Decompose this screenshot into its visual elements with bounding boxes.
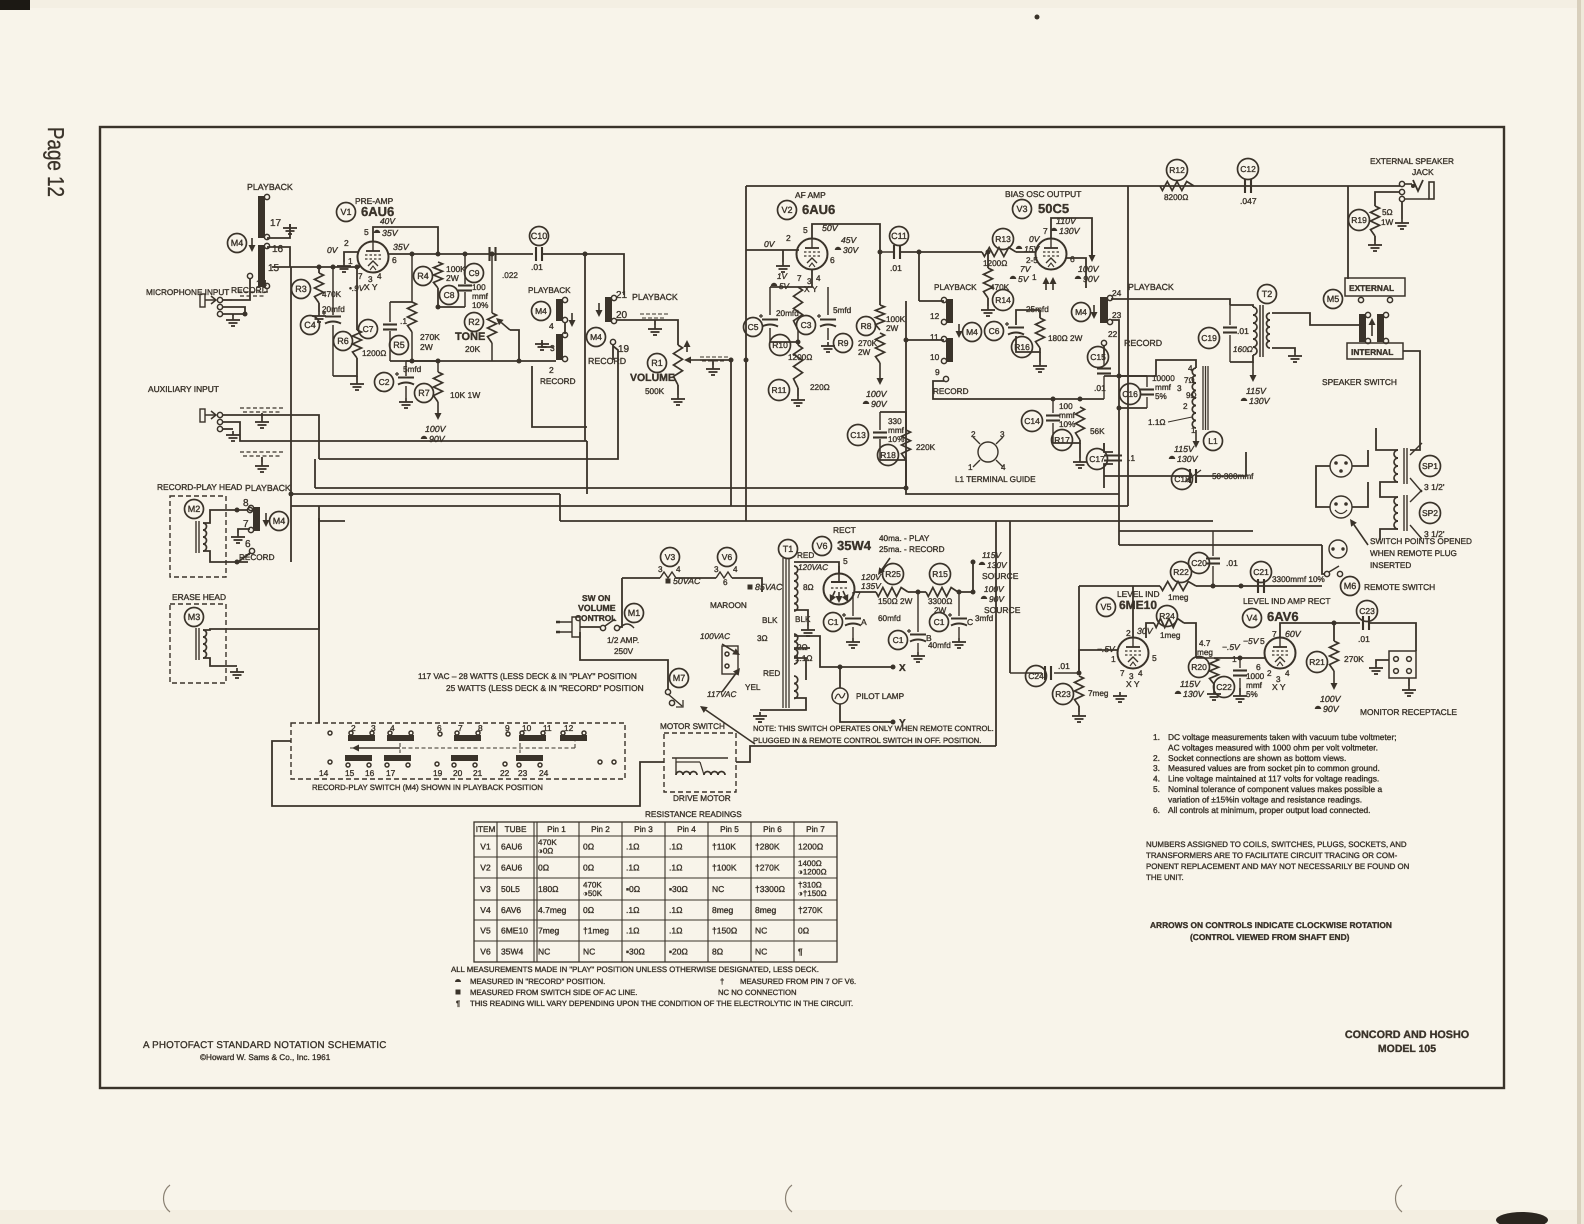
svg-text:C8: C8 (444, 290, 455, 300)
svg-text:7: 7 (797, 274, 802, 283)
svg-text:7meg: 7meg (1088, 689, 1109, 698)
volume bottom ground lead (677, 385, 679, 395)
junction cathode R5 (410, 359, 415, 364)
svg-text:8Ω: 8Ω (803, 583, 814, 592)
jack ring wire (1375, 192, 1400, 206)
R16 top lead (1039, 310, 1041, 318)
label MOTOR SWITCH (660, 722, 725, 731)
record marker 130V (R20) (1175, 691, 1181, 694)
pin 22 down (1103, 346, 1105, 360)
svg-text:R21: R21 (1309, 657, 1325, 667)
svg-text:MOTOR SWITCH: MOTOR SWITCH (660, 722, 725, 731)
value 25mfd (C6) (1026, 305, 1049, 314)
svg-text:PLAYBACK: PLAYBACK (934, 283, 977, 292)
svg-text:©Howard W. Sams & Co., Inc. 19: ©Howard W. Sams & Co., Inc. 1961 (200, 1053, 331, 1062)
footer model line1 (1345, 1029, 1469, 1041)
V1 screen line (388, 253, 533, 255)
punch mark right (1396, 1185, 1402, 1212)
pin 3 ground lead (542, 342, 553, 347)
resistor designator R13 (993, 229, 1014, 250)
voltage 100V (R21) (1320, 694, 1342, 704)
resistor designator R8 (857, 317, 876, 336)
svg-text:14: 14 (319, 768, 329, 778)
pot designator R2 (465, 313, 484, 332)
L1 7 ohm (1184, 376, 1195, 385)
svg-text:1/2 AMP.: 1/2 AMP. (607, 636, 639, 645)
svg-text:RED: RED (797, 551, 814, 560)
svg-text:4.7meg: 4.7meg (538, 905, 567, 915)
svg-text:8meg: 8meg (755, 905, 777, 915)
svg-text:22: 22 (1108, 329, 1118, 339)
label LEVEL IND AMP RECT (1243, 596, 1331, 606)
V3 box right vertical (1127, 186, 1129, 506)
svg-text:THIS READING WILL VARY DEPENDI: THIS READING WILL VARY DEPENDING UPON TH… (470, 999, 853, 1008)
switch M4 section 24-23 (1100, 295, 1113, 324)
ground at V2 pin2 (776, 262, 790, 272)
label PLAYBACK (tone switch) (528, 286, 571, 295)
svg-text:180Ω 2W: 180Ω 2W (1048, 334, 1083, 343)
svg-text:6AU6: 6AU6 (501, 842, 523, 852)
svg-text:V5: V5 (1100, 602, 1111, 612)
svg-text:◑0Ω: ◑0Ω (538, 847, 553, 856)
svg-text:6AU6: 6AU6 (802, 202, 835, 217)
svg-text:17: 17 (270, 218, 282, 229)
tube designator V3 (1013, 200, 1032, 219)
tube type 6AU6 (V2) (802, 202, 835, 217)
capacitor designator C11 (890, 227, 909, 246)
value 3300 ohm (R15) (928, 597, 952, 606)
switch wafer bar top 5 (560, 731, 587, 741)
plug wiring left (1316, 466, 1330, 507)
switch M4 section 20-21 (605, 295, 617, 323)
svg-text:20mfd: 20mfd (322, 305, 345, 314)
junction wiper bus2 (744, 358, 749, 363)
label PRE-AMP (355, 196, 394, 206)
svg-text:RESISTANCE READINGS: RESISTANCE READINGS (645, 810, 742, 819)
svg-text:SPEAKER SWITCH: SPEAKER SWITCH (1322, 377, 1397, 387)
svg-text:4: 4 (816, 274, 821, 283)
svg-text:0Ω: 0Ω (583, 905, 594, 915)
footer model line2 (1378, 1043, 1436, 1055)
M4 arrow (output) (1091, 305, 1098, 319)
value 1meg (R24) (1160, 631, 1181, 640)
V4 plate junction R21 (1333, 623, 1335, 641)
svg-text:NC: NC (755, 947, 767, 957)
svg-text:NC NO CONNECTION: NC NO CONNECTION (718, 988, 797, 997)
svg-text:R22: R22 (1173, 567, 1189, 577)
head designator M2 (185, 500, 204, 519)
ground below R17 (1073, 458, 1087, 468)
power note line 1 (418, 672, 637, 681)
svg-text:100: 100 (472, 283, 486, 292)
svg-text:.1Ω: .1Ω (626, 842, 639, 852)
switch to heater string (619, 578, 622, 627)
C18 left wire (1104, 475, 1189, 477)
voltage 120V (V6) (861, 572, 882, 582)
capacitor designator C10 (530, 227, 549, 246)
svg-text:R6: R6 (337, 336, 349, 346)
svg-text:115V: 115V (1180, 679, 1201, 689)
svg-text:5: 5 (1152, 653, 1157, 663)
voltage 115V (L1) (1174, 444, 1195, 454)
svg-text:RECORD-PLAY HEAD: RECORD-PLAY HEAD (157, 482, 242, 492)
ground below C3 (821, 342, 835, 352)
aux shield dashes 1 (240, 408, 285, 412)
wattage 2W (R4) (446, 273, 459, 283)
switch M4 section 15-16 (258, 243, 270, 288)
label MONITOR RECEPTACLE (1360, 707, 1457, 717)
capacitor C20 .01 (1206, 531, 1220, 586)
svg-text:MEASURED FROM PIN 7 OF V6.: MEASURED FROM PIN 7 OF V6. (740, 977, 856, 986)
L1 9 ohm (1186, 391, 1197, 400)
label JACK (ext spkr) (1412, 167, 1434, 177)
svg-text:22: 22 (500, 768, 510, 778)
resistor R6 1200 (353, 330, 362, 358)
label WHEN REMOTE PLUG (1370, 549, 1457, 558)
value .01 (C11) (890, 263, 902, 273)
pin 6 label (V2) (830, 255, 835, 265)
switch contact 15 label (345, 768, 355, 778)
value 220 ohm (R11) (810, 383, 830, 392)
R24 right wire (1184, 623, 1196, 658)
svg-text:−.5V: −.5V (1097, 644, 1116, 654)
svg-text:115V: 115V (982, 550, 1002, 560)
ground below R16 (1033, 362, 1047, 372)
svg-text:C19: C19 (1201, 333, 1217, 343)
R13 to grid (1016, 251, 1036, 253)
wattage 2W (R15) (934, 606, 947, 615)
capacitor designator C1 A (824, 613, 843, 632)
svg-text:▪30Ω: ▪30Ω (626, 947, 645, 957)
record marker 90V source (981, 596, 987, 599)
value 50-300mmf (C18) (1212, 472, 1254, 481)
svg-text:R11: R11 (772, 385, 787, 395)
svg-text:10000: 10000 (1152, 374, 1175, 383)
speaker switch arrow (1369, 318, 1376, 336)
heater string wire 3 (732, 578, 762, 592)
bus line y494 right (906, 488, 1119, 494)
svg-text:8200Ω: 8200Ω (1164, 193, 1188, 202)
svg-text:¶: ¶ (456, 999, 460, 1008)
wattage 1W (R19) (1381, 218, 1394, 227)
svg-text:23: 23 (1112, 310, 1122, 320)
label INSERTED (1370, 561, 1411, 570)
capacitor C17 .1 (1103, 443, 1105, 452)
svg-text:2W: 2W (420, 342, 433, 352)
label MICROPHONE INPUT (146, 288, 229, 297)
record-play head coil (196, 521, 207, 553)
resistor designator R7 (415, 384, 434, 403)
svg-text:1: 1 (1111, 654, 1116, 664)
svg-text:C16: C16 (1122, 389, 1138, 399)
svg-text:180Ω: 180Ω (538, 884, 559, 894)
resistor designator R19 (1349, 210, 1370, 231)
value mmf (C13) (888, 426, 905, 435)
svg-text:ALL MEASUREMENTS MADE IN "PLAY: ALL MEASUREMENTS MADE IN "PLAY" POSITION… (451, 965, 819, 974)
voltage 115V (R20) (1180, 679, 1201, 689)
svg-text:15: 15 (268, 263, 280, 274)
L1 pin 1 label (1191, 426, 1196, 435)
svg-text:WHEN REMOTE PLUG: WHEN REMOTE PLUG (1370, 549, 1457, 558)
svg-text:.01: .01 (1226, 558, 1238, 568)
ground volume shield 2 (706, 365, 720, 375)
svg-text:M6: M6 (1344, 581, 1357, 591)
resistor R13 1200 (982, 248, 1016, 257)
svg-text:6: 6 (1070, 254, 1075, 264)
tube type 6AV6 (1267, 609, 1299, 624)
capacitor designator C20 (1189, 553, 1210, 574)
ground at pin 17 (283, 224, 297, 234)
resistor R1 volume pot (674, 345, 683, 385)
ground volume shield (648, 325, 662, 335)
value 1000 (C22) (1246, 672, 1265, 681)
svg-text:7meg: 7meg (538, 926, 560, 936)
R14 ground (987, 298, 989, 306)
svg-text:2: 2 (786, 233, 791, 243)
svg-text:Pin 6: Pin 6 (763, 825, 782, 834)
aux shield stub 1 (261, 413, 263, 418)
voltage 90V (V3 out) (1083, 274, 1100, 284)
junction R4/C8 bottom (436, 305, 441, 310)
SP1-SP2 tie (1380, 482, 1398, 497)
svg-text:Nominal tolerance of component: Nominal tolerance of component values ma… (1168, 784, 1382, 794)
svg-text:(CONTROL VIEWED FROM SHAFT: (CONTROL VIEWED FROM SHAFT END) (1190, 932, 1350, 942)
svg-text:Line voltage maintained at 117: Line voltage maintained at 117 volts for… (1168, 774, 1379, 784)
switch contact 8 label (478, 723, 483, 733)
svg-text:50L5: 50L5 (501, 884, 520, 894)
svg-text:15: 15 (345, 768, 355, 778)
ground at jack sleeve (1395, 219, 1409, 229)
svg-text:†270K: †270K (798, 905, 823, 915)
pin 1 label (V1) (348, 256, 353, 266)
svg-text:7: 7 (1272, 629, 1277, 639)
V1 pin2 bypass (344, 252, 359, 262)
tube type 50C5 (1038, 201, 1069, 216)
capacitor designator C12 (1238, 159, 1259, 180)
svg-text:AUXILIARY INPUT: AUXILIARY INPUT (148, 384, 219, 394)
T1 sec bottom wire (794, 658, 806, 680)
resistor R25 150ohm (876, 588, 908, 597)
ground at pin 7 (231, 533, 245, 543)
svg-text:C5: C5 (748, 322, 759, 332)
table footnote all-measurements (451, 965, 819, 974)
value .01 (C19) (1237, 326, 1249, 336)
capacitor C2 electrolytic 5mfd (395, 361, 414, 398)
resistor R16 180 (1036, 318, 1045, 348)
ground below V5 (1113, 692, 1127, 702)
pin 7 label (243, 519, 249, 530)
resistor designator R11 (769, 380, 790, 401)
switch wafer bar bottom 1 (345, 755, 372, 767)
svg-text:◑1200Ω: ◑1200Ω (798, 868, 827, 877)
svg-text:6.: 6. (1153, 805, 1160, 815)
erase head ground (230, 668, 244, 678)
voltage 115V (T2) (1246, 386, 1267, 396)
V6 output wire (854, 591, 876, 593)
svg-text:3300mmf 10%: 3300mmf 10% (1272, 575, 1325, 584)
pin 21 label (616, 290, 628, 301)
head top lead (203, 510, 248, 523)
ground below C2 (399, 398, 413, 408)
cathode from tube V3 (1016, 310, 1040, 325)
record marker 130V (V3) (1051, 228, 1057, 231)
svg-text:ERASE HEAD: ERASE HEAD (172, 592, 226, 602)
voltage -.5V (V5) (1097, 644, 1116, 654)
svg-text:24: 24 (539, 768, 549, 778)
junction R18 bus (904, 486, 909, 491)
svg-text:330: 330 (888, 417, 902, 426)
junction x906 pin11 (904, 338, 909, 343)
pin 22 label (1108, 329, 1118, 339)
T1 8 ohm (803, 583, 814, 592)
svg-text:R3: R3 (295, 284, 307, 294)
svg-text:SWITCH POINTS OPENED: SWITCH POINTS OPENED (1370, 537, 1472, 546)
svg-text:C20: C20 (1191, 558, 1207, 568)
svg-text:V6: V6 (480, 947, 491, 957)
R14 top (987, 252, 989, 268)
svg-text:.1: .1 (1128, 453, 1135, 463)
C22 ground lead (1239, 688, 1241, 692)
svg-text:Pin 4: Pin 4 (677, 825, 696, 834)
value meg (R20) (1197, 648, 1213, 657)
pin 20 label (616, 310, 628, 321)
junction C20 node (1211, 584, 1216, 589)
switch travel corner (574, 738, 576, 748)
pins 2-5 label (V3) (1026, 256, 1038, 265)
label RECORD (tone) (540, 377, 576, 386)
voltage 100V source (984, 584, 1005, 594)
svg-text:.01: .01 (1237, 326, 1249, 336)
switch wafer bar bottom 4 (516, 755, 543, 767)
capacitor designator C6 (985, 322, 1004, 341)
junction C22 (1238, 656, 1243, 661)
svg-text:56K: 56K (1090, 427, 1105, 436)
capacitor designator C22 (1214, 677, 1235, 698)
head bottom lead (203, 551, 248, 562)
ground below receptacle (1402, 686, 1416, 696)
numbers-assigned paragraph line 4 (1146, 873, 1184, 882)
value 470K (R14) (990, 283, 1010, 292)
svg-text:35W4: 35W4 (837, 538, 872, 553)
volume wiper arrow (684, 357, 700, 364)
svg-text:†270K: †270K (755, 863, 780, 873)
pin 14 label (256, 279, 268, 290)
svg-text:220K: 220K (916, 443, 936, 452)
capacitor designator C9 (465, 264, 484, 283)
drive motor windings (672, 758, 728, 775)
resistor R9 270K (876, 333, 885, 363)
capacitor designator C5 (744, 318, 763, 337)
svg-text:4.: 4. (1153, 774, 1160, 784)
pin 6 lead (238, 553, 250, 562)
B+ 115V source dot (971, 560, 976, 565)
switch spare pins (328, 731, 616, 766)
label SW ON (582, 593, 610, 603)
switch designator M7 (670, 669, 689, 688)
switch wafer bar bottom 3 (451, 755, 478, 767)
svg-text:21: 21 (616, 290, 628, 301)
svg-text:115V: 115V (1174, 444, 1195, 454)
tube designator V5 (1097, 598, 1116, 617)
svg-text:VOLUME: VOLUME (578, 603, 616, 613)
svg-text:6AV6: 6AV6 (501, 905, 521, 915)
T2 secondary bottom (1272, 348, 1295, 352)
switch contact 6 label (437, 723, 442, 733)
note box right vertical (995, 521, 997, 746)
resistor R15 3300ohm (926, 588, 958, 597)
svg-text:1.: 1. (1153, 732, 1160, 742)
record marker 5V (V2) (771, 283, 777, 286)
voltage 130V (V3) (1059, 226, 1081, 236)
svg-text:−5V: −5V (1243, 636, 1260, 646)
value .01 (C15) (1094, 383, 1106, 393)
R6 top lead (356, 267, 358, 330)
table footnote ac-line (456, 988, 638, 997)
svg-text:4: 4 (733, 565, 738, 574)
svg-text:.047: .047 (1240, 196, 1257, 206)
label CONTROL (575, 613, 616, 623)
svg-text:SOURCE: SOURCE (982, 571, 1019, 581)
pin 4 label (tone) (549, 321, 554, 331)
value 180 ohm 2W (R16) (1048, 334, 1083, 343)
capacitor C14 100mmf (1046, 399, 1060, 443)
svg-text:117 VAC – 28 WATTS (LESS DECK: 117 VAC – 28 WATTS (LESS DECK & IN "PLAY… (418, 672, 637, 681)
T1 sec mid taps (794, 647, 810, 649)
resistor R3 470K (315, 273, 324, 303)
svg-text:4: 4 (549, 321, 554, 331)
transformer designator T1 (779, 540, 798, 559)
svg-text:3mfd: 3mfd (975, 614, 994, 623)
svg-text:INTERNAL: INTERNAL (1351, 347, 1393, 357)
pin 8 circle (247, 507, 252, 512)
pin 6 circle (249, 548, 254, 553)
svg-text:mmf: mmf (888, 426, 905, 435)
svg-text:V5: V5 (480, 926, 491, 936)
note 25ma record (879, 545, 945, 554)
svg-text:6: 6 (1256, 662, 1261, 672)
numbers-assigned paragraph line 1 (1146, 840, 1407, 849)
value 100 (C14) (1059, 402, 1073, 411)
notes line 3 (1153, 753, 1346, 763)
svg-text:24: 24 (1112, 288, 1122, 298)
svg-text:C3: C3 (801, 320, 812, 330)
resistor R21 270K (1330, 641, 1339, 671)
tube V4 6AV6 (1265, 638, 1296, 669)
label BIAS OSC OUTPUT (1005, 189, 1081, 199)
svg-text:10: 10 (930, 352, 940, 362)
svg-text:7: 7 (1120, 669, 1125, 678)
label PILOT LAMP (856, 692, 905, 701)
junction head bottom (235, 560, 240, 565)
V2 cathode lead (798, 270, 812, 287)
value mmf (C16) (1155, 383, 1172, 392)
coil designator L1 (1204, 432, 1223, 451)
switch travel arrow (352, 745, 400, 752)
junction screen/C8 (463, 252, 468, 257)
switch contact 20 label (453, 768, 463, 778)
svg-text:BIAS OSC OUTPUT: BIAS OSC OUTPUT (1005, 189, 1081, 199)
pin 1 label (V4) (1232, 654, 1237, 664)
EXTERNAL box pins (1358, 297, 1392, 302)
svg-text:†110K: †110K (712, 842, 736, 852)
switch wafer bar top 1 (348, 731, 375, 741)
svg-text:C1: C1 (934, 617, 945, 627)
svg-text:.1Ω: .1Ω (669, 863, 682, 873)
svg-text:9Ω: 9Ω (1186, 391, 1197, 400)
capacitor C1B electrolytic 40mfd (907, 592, 926, 652)
svg-text:.1Ω: .1Ω (669, 905, 682, 915)
capacitor C17 plates (1104, 456, 1122, 461)
